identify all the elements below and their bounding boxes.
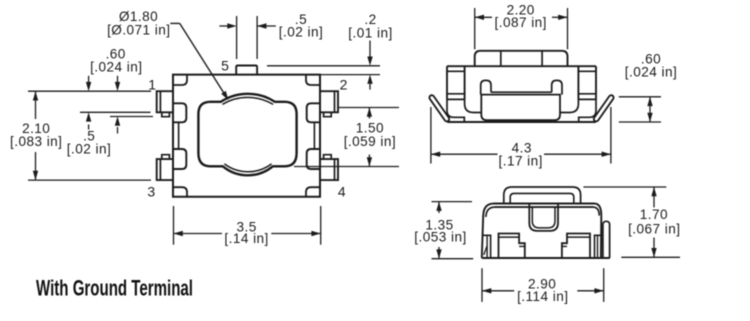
svg-text:5: 5: [221, 57, 229, 73]
svg-text:[.087 in]: [.087 in]: [494, 15, 546, 30]
svg-text:[.059 in]: [.059 in]: [344, 134, 396, 149]
svg-text:1: 1: [148, 77, 156, 93]
svg-text:[.17 in]: [.17 in]: [498, 153, 542, 168]
svg-text:[.14 in]: [.14 in]: [224, 231, 268, 246]
svg-text:2: 2: [340, 77, 348, 93]
svg-text:[.053 in]: [.053 in]: [414, 229, 466, 244]
svg-text:[.02 in]: [.02 in]: [67, 141, 111, 156]
svg-text:[.01 in]: [.01 in]: [348, 26, 392, 41]
svg-text:[.02 in]: [.02 in]: [279, 25, 323, 40]
svg-text:[.024 in]: [.024 in]: [625, 65, 677, 80]
svg-text:4: 4: [338, 183, 346, 199]
svg-text:[.114 in]: [.114 in]: [517, 289, 568, 304]
svg-text:3: 3: [147, 183, 155, 199]
svg-text:[.083 in]: [.083 in]: [10, 134, 62, 149]
svg-text:[.024 in]: [.024 in]: [90, 59, 142, 74]
svg-text:[Ø.071 in]: [Ø.071 in]: [107, 23, 170, 38]
svg-text:With Ground Terminal: With Ground Terminal: [36, 276, 193, 301]
svg-text:1.70: 1.70: [640, 207, 668, 222]
svg-text:[.067 in]: [.067 in]: [628, 221, 680, 236]
